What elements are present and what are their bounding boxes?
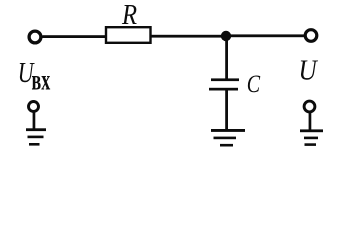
wire from bottom-right terminal to ground: [309, 112, 312, 130]
wire from node down to capacitor: [225, 40, 228, 79]
terminal input (top-left open circle): [29, 31, 41, 43]
ground (bottom-right): [300, 129, 323, 146]
svg-text:U: U: [299, 54, 319, 86]
wire from input terminal to resistor: [43, 35, 107, 38]
wire from resistor to node: [151, 35, 222, 38]
svg-text:C: C: [247, 70, 261, 98]
capacitor C (two plates): [209, 78, 239, 90]
terminal output (top-right open circle): [305, 30, 317, 42]
resistor R (box): [106, 27, 151, 43]
node junction (filled dot): [221, 31, 231, 41]
svg-text:вх: вх: [32, 64, 51, 97]
wire from node to output terminal: [230, 34, 304, 37]
terminal (bottom-right open circle): [304, 101, 315, 112]
wire from bottom-left terminal to ground: [33, 112, 36, 130]
ground (center, below capacitor): [211, 129, 245, 147]
wire from capacitor down to ground: [225, 91, 228, 130]
svg-text:R: R: [121, 0, 137, 31]
ground (bottom-left): [26, 128, 46, 145]
terminal (bottom-left open circle): [29, 102, 39, 112]
